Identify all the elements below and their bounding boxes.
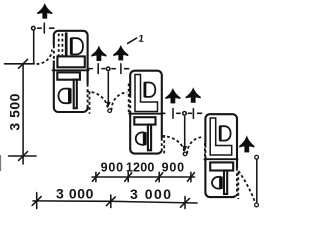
unit 3 open door leaf dashed right	[237, 172, 239, 199]
unit 2 open door leaf dashed right	[163, 135, 165, 156]
unit 1 door opening right edge	[86, 84, 89, 106]
unit 1 shaft dashed strip	[59, 34, 63, 56]
door post line from circle (unit 1 entry)	[33, 30, 35, 64]
leader line to label 1	[128, 38, 137, 43]
dimension 3500 tick bottom	[19, 152, 28, 161]
unit 3 door opening right edge	[236, 168, 239, 196]
unit 1 door opening left edge	[53, 46, 56, 61]
unit 3 lower wall vertical	[224, 171, 227, 195]
dimension 3500 line	[22, 64, 24, 164]
svg-text:3 500: 3 500	[7, 93, 23, 131]
unit 2 bar lower half	[134, 117, 155, 124]
svg-text:900: 900	[162, 160, 185, 174]
unit 3 bar lower half	[210, 162, 233, 170]
pendulum arrowhead 1	[106, 102, 111, 107]
door pendulum line 2	[184, 117, 186, 148]
door swing arc unit2 upper	[111, 93, 127, 111]
dimension 3500 extension top	[5, 63, 35, 65]
unit 1 bar (sink counter top half)	[57, 56, 84, 67]
unit 1 divider wall	[53, 69, 89, 71]
door swing arc unit3 upper	[187, 137, 203, 154]
dimension 3500 tick top	[19, 59, 28, 68]
unit 2 toilet D4	[136, 132, 145, 145]
unit 1 lower wall vertical	[74, 80, 77, 109]
axis line 1 (between units 1 and 2)	[89, 64, 129, 74]
svg-text:3 000: 3 000	[56, 185, 94, 201]
unit 3 toilet D6	[212, 177, 221, 190]
unit 2 toilet D3	[145, 82, 155, 97]
dimension 3000 extension stubs	[37, 193, 185, 209]
svg-text:900: 900	[101, 160, 124, 174]
unit 1 toilet D2	[59, 88, 71, 103]
unit 1 wall L vertical	[65, 32, 68, 61]
svg-text:1200: 1200	[126, 160, 155, 174]
unit 1 bar lower half	[57, 72, 80, 79]
unit 2 open door leaf dashed left	[128, 84, 130, 114]
unit 2 wall L	[135, 75, 158, 112]
entrance arrow F	[239, 136, 254, 152]
entrance arrow C	[113, 46, 128, 60]
unit 2 door opening left edge	[129, 95, 132, 112]
door swing arc unit 1 entry	[37, 49, 53, 64]
unit 3 divider wall	[205, 158, 238, 160]
unit 1 open door leaf dashed	[89, 92, 91, 114]
unit 2 divider wall	[129, 113, 162, 115]
unit 1 toilet D1	[71, 38, 83, 55]
door post line 3	[256, 159, 258, 202]
unit 3 outline	[205, 114, 237, 197]
axis line 2 (between units 2 and 3)	[161, 109, 201, 119]
dimension 3000 ticks	[32, 197, 189, 208]
pendulum arrowhead 2	[182, 146, 187, 151]
door pendulum line 1	[107, 72, 109, 103]
unit 3 open door leaf dashed left	[204, 143, 206, 161]
unit 3 toilet D5	[220, 126, 230, 141]
dimension 900/1200/900 line	[92, 176, 195, 178]
entrance arrow E	[186, 88, 201, 102]
axis line 0 (top-left dash-dot with circle)	[32, 23, 54, 33]
entrance arrow B	[92, 46, 107, 60]
unit 2 lower wall vertical	[148, 125, 151, 151]
entrance arrow D	[166, 89, 181, 103]
door swing arc unit2 lower	[162, 136, 184, 154]
dimension extension stubs 900/1200/900	[96, 172, 191, 181]
door post circle 2	[183, 152, 187, 156]
paper edge artifact	[0, 155, 2, 171]
door swing arc unit1 lower	[87, 92, 108, 111]
svg-text:3 000: 3 000	[130, 186, 173, 202]
entrance arrow A (top left)	[37, 4, 52, 18]
door swing arc unit3 lower	[239, 171, 256, 203]
door post circle 3 top	[255, 155, 259, 159]
unit 3 wall L	[210, 118, 232, 155]
dimension 3500 extension bottom	[9, 155, 36, 157]
door post circle 3 bottom	[255, 203, 259, 207]
unit 1 outline	[54, 31, 88, 112]
unit 2 door opening right edge	[160, 138, 163, 151]
door post circle 1	[108, 109, 112, 113]
dimension ticks 900/1200/900	[92, 173, 194, 182]
unit 2 outline	[130, 71, 162, 154]
dimension 3000 line	[33, 201, 197, 203]
unit 3 door opening left edge	[204, 145, 207, 158]
